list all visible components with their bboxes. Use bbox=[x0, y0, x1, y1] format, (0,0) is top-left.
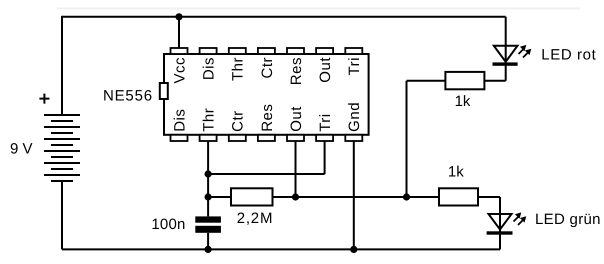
svg-text:LED grün: LED grün bbox=[535, 211, 601, 228]
capacitor C1 100n bottom plate bbox=[195, 226, 221, 233]
resistor R3 2,2M bbox=[231, 188, 273, 205]
svg-text:1k: 1k bbox=[448, 164, 464, 181]
node junction Out / mid net bbox=[292, 193, 299, 200]
IC bottom pin 10 (Ctr) bbox=[229, 135, 246, 141]
IC bottom pin 9 (Thr) bbox=[200, 135, 217, 141]
wire Thr(bottom) down to capacitor bbox=[207, 141, 209, 216]
svg-text:Gnd: Gnd bbox=[346, 102, 363, 132]
wire bottom rail bbox=[62, 248, 500, 250]
capacitor C1 100n top plate bbox=[195, 216, 221, 222]
node junction Thr / RC net bbox=[205, 193, 212, 200]
svg-text:NE556: NE556 bbox=[103, 87, 153, 104]
LED D2 gruen triangle bbox=[489, 214, 512, 230]
wire 1k bottom resistor to LED gruen bbox=[478, 196, 500, 198]
IC top pin 7 (Tri) bbox=[345, 48, 362, 54]
IC bottom pin 8 (Dis) bbox=[171, 135, 188, 141]
LED D1 rot light arrows bbox=[519, 45, 532, 58]
wire Tri(bottom) down bbox=[324, 141, 326, 174]
svg-text:9 V: 9 V bbox=[10, 140, 33, 157]
wire Vcc pin to top rail bbox=[178, 17, 180, 49]
svg-text:Out: Out bbox=[317, 57, 334, 83]
LED D2 gruen cathode bar bbox=[487, 231, 513, 234]
svg-text:Dis: Dis bbox=[171, 109, 188, 132]
IC top pin 3 (Thr) bbox=[229, 48, 246, 54]
wire top rail (battery + to LED rot) bbox=[62, 16, 506, 18]
svg-text:Dis: Dis bbox=[201, 57, 218, 80]
svg-text:Tri: Tri bbox=[346, 57, 363, 75]
IC top pin 4 (Ctr) bbox=[258, 48, 275, 54]
svg-text:Ctr: Ctr bbox=[230, 110, 247, 132]
svg-text:1k: 1k bbox=[455, 93, 471, 110]
LED D1 rot cathode bar bbox=[493, 62, 518, 65]
IC bottom pin 11 (Res) bbox=[258, 135, 275, 141]
resistor R1 1k (LED rot) bbox=[445, 72, 484, 89]
svg-text:Out: Out bbox=[288, 106, 305, 132]
battery + polarity mark bbox=[39, 94, 49, 104]
wire Gnd down to bottom rail bbox=[353, 141, 355, 249]
LED D1 rot triangle bbox=[494, 46, 518, 62]
node junction Gnd / bottom rail bbox=[350, 246, 357, 253]
wire battery - down to bottom rail bbox=[61, 181, 63, 249]
wire mid net up to 1k (LED rot) bbox=[406, 81, 408, 197]
svg-text:100n: 100n bbox=[151, 216, 185, 233]
wire battery + up to top rail bbox=[61, 16, 63, 115]
wire 1k to LED rot cathode bbox=[484, 80, 505, 82]
svg-text:Res: Res bbox=[288, 57, 305, 85]
wire capacitor to bottom rail bbox=[207, 233, 209, 250]
node junction top rail / Vcc bbox=[175, 13, 182, 20]
op-amp timer IC U1 NE556 body bbox=[164, 54, 369, 135]
IC top pin 2 (Dis) bbox=[200, 48, 217, 54]
wire LED gruen vertical bbox=[499, 197, 501, 249]
wire LED rot vertical (top rail to 1k) bbox=[505, 17, 507, 81]
wire RC net to 2,2M resistor bbox=[208, 196, 231, 198]
IC top pin 6 (Out) bbox=[316, 48, 333, 54]
svg-text:Ctr: Ctr bbox=[259, 57, 276, 79]
svg-text:Res: Res bbox=[259, 104, 276, 132]
svg-text:Tri: Tri bbox=[317, 113, 334, 131]
IC bottom pin 12 (Out) bbox=[287, 135, 304, 141]
IC top pin 1 (Vcc) bbox=[171, 48, 188, 54]
resistor R2 1k (LED gruen) bbox=[439, 188, 478, 205]
wire to 1k top resistor bbox=[407, 80, 446, 82]
wire Out(bottom) down bbox=[295, 141, 297, 197]
battery BT1 9V bbox=[44, 115, 80, 181]
wire 2,2M to 1k (mid net) bbox=[273, 196, 440, 198]
svg-text:LED rot: LED rot bbox=[541, 46, 596, 63]
svg-text:2,2M: 2,2M bbox=[237, 210, 274, 227]
faint scan artifact line bbox=[57, 8, 580, 10]
node junction mid net / LED rot branch bbox=[403, 193, 410, 200]
svg-text:Thr: Thr bbox=[230, 57, 247, 81]
LED D2 gruen light arrows bbox=[514, 212, 527, 225]
wire Tri to Thr horizontal bbox=[208, 173, 325, 175]
IC U1 pin-1 marker box bbox=[160, 83, 168, 99]
node junction capacitor / bottom rail bbox=[205, 246, 212, 253]
IC bottom pin 14 (Gnd) bbox=[345, 135, 362, 141]
IC bottom pin 13 (Tri) bbox=[316, 135, 333, 141]
svg-text:Vcc: Vcc bbox=[171, 57, 188, 84]
IC top pin 5 (Res) bbox=[287, 48, 304, 54]
svg-text:Thr: Thr bbox=[201, 108, 218, 132]
node junction Thr/Tri bbox=[205, 170, 212, 177]
